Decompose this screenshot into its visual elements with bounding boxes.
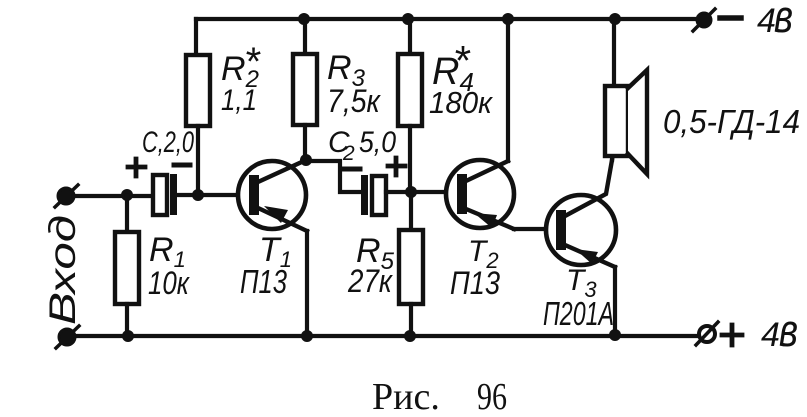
node R2 bottom junction (192, 189, 204, 201)
node T2 collector top (502, 13, 514, 25)
resistor R4 (398, 19, 422, 192)
terminal input bottom (56, 326, 79, 348)
svg-text:в: в (779, 304, 798, 356)
wire T2 emitter to T3 base (514, 227, 556, 231)
node T1 emitter bottom (301, 330, 313, 342)
svg-text:5,0: 5,0 (359, 126, 396, 159)
label C2 minus (343, 167, 360, 172)
terminal output minus (693, 9, 715, 31)
label C2 plus (388, 158, 405, 175)
label -4v (720, 15, 741, 21)
node R3 top (298, 13, 310, 25)
wire T1 collector to C2 (306, 161, 361, 192)
svg-text:П13: П13 (240, 263, 287, 300)
node R4 top (402, 13, 414, 25)
node C2/R4/R5 junction (405, 186, 417, 198)
wire T3 emitter down (613, 267, 617, 335)
svg-text:1,1: 1,1 (221, 84, 257, 117)
svg-text:180к: 180к (429, 85, 493, 120)
wire C1 to T1 base (177, 193, 248, 197)
svg-text:C,2,0: C,2,0 (142, 126, 194, 159)
node R1 bottom (122, 330, 134, 342)
wire input to C1 (74, 194, 152, 198)
svg-text:*: * (244, 40, 261, 84)
svg-text:27к: 27к (347, 263, 394, 299)
label +4v (722, 325, 742, 345)
node T1 collector junction (300, 154, 312, 166)
resistor R5 (399, 192, 423, 336)
svg-text:10к: 10к (148, 265, 191, 301)
wire C2 to T2 base (386, 190, 456, 194)
node R5 bottom (404, 330, 416, 342)
node speaker top (609, 13, 621, 25)
wire bottom supply rail (67, 334, 698, 338)
svg-text:4: 4 (761, 316, 780, 354)
svg-text:7,5к: 7,5к (327, 83, 382, 119)
svg-text:0,5-ГД-14: 0,5-ГД-14 (663, 103, 800, 140)
svg-text:96: 96 (477, 376, 507, 417)
svg-text:Рис.: Рис. (372, 376, 440, 417)
speaker (605, 19, 647, 174)
terminal input top (55, 185, 78, 207)
transistor T1 (238, 160, 307, 231)
capacitor C2 (361, 175, 386, 215)
svg-text:*: * (453, 37, 471, 84)
transistor T3 (546, 160, 616, 267)
wire T1 emitter down (305, 231, 309, 336)
svg-text:2: 2 (342, 142, 355, 165)
node T3 emitter bottom (609, 329, 621, 341)
transistor T2 (446, 160, 514, 229)
svg-text:П201А: П201А (543, 295, 614, 332)
svg-text:Вход: Вход (42, 215, 83, 325)
resistor R1 (115, 196, 139, 336)
label C1 plus (128, 159, 145, 176)
terminal output plus (696, 322, 718, 345)
svg-text:П13: П13 (450, 265, 500, 301)
wire T2 collector up (506, 19, 510, 161)
capacitor C1 (153, 174, 177, 215)
wire top supply rail (196, 17, 697, 21)
svg-text:в: в (774, 0, 793, 42)
wire T3 collector to speaker (610, 156, 614, 160)
node input/R1 junction (121, 189, 133, 201)
label C1 minus (174, 163, 190, 168)
resistor R2 (186, 19, 210, 194)
resistor R3 (293, 19, 317, 160)
